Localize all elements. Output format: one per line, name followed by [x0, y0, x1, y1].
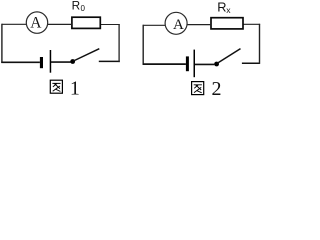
wire battery to switch fig2	[195, 63, 214, 65]
wire bottom-left horizontal fig2	[143, 63, 186, 65]
wire bottom-left horizontal fig1	[1, 61, 40, 63]
switch pivot dot fig2	[214, 62, 219, 67]
battery fig1 negative plate (short thick)	[40, 57, 43, 68]
wire ammeter to resistor fig2	[187, 24, 211, 26]
battery fig2 positive plate (long thin)	[194, 50, 196, 78]
battery fig1 positive plate (long thin)	[50, 50, 52, 73]
wire right vertical fig2	[259, 24, 261, 64]
svg-text:0: 0	[81, 4, 86, 13]
wire top-left horizontal fig1	[2, 23, 27, 25]
caption 图 glyph fig1	[50, 80, 62, 93]
wire switch contact fig2	[242, 62, 260, 64]
resistor Rx body fig2	[211, 18, 243, 29]
switch lever fig1	[73, 49, 99, 61]
resistor R0 body fig1	[72, 17, 100, 28]
wire resistor to right corner fig1	[100, 24, 119, 26]
svg-text:2: 2	[212, 78, 222, 98]
wire left vertical fig1	[1, 24, 3, 63]
wire ammeter to resistor fig1	[48, 23, 73, 25]
wire resistor to right corner fig2	[243, 23, 260, 25]
wire left vertical fig2	[142, 25, 144, 65]
ammeter A fig2	[165, 12, 187, 34]
ammeter A fig1	[26, 12, 47, 33]
wire right vertical fig1	[118, 24, 120, 62]
svg-text:1: 1	[70, 78, 80, 99]
wire battery to switch fig1	[51, 61, 71, 63]
svg-text:x: x	[226, 5, 231, 15]
svg-text:R: R	[217, 0, 226, 14]
switch lever fig2	[217, 49, 240, 64]
svg-text:A: A	[173, 17, 184, 33]
battery fig2 negative plate (short thick)	[186, 56, 189, 71]
svg-text:A: A	[30, 15, 42, 32]
caption 图 glyph fig2	[192, 82, 204, 95]
wire switch contact fig1	[99, 60, 120, 62]
switch pivot dot fig1	[70, 59, 75, 64]
svg-text:R: R	[72, 0, 81, 12]
wire top-left horizontal fig2	[143, 24, 165, 26]
